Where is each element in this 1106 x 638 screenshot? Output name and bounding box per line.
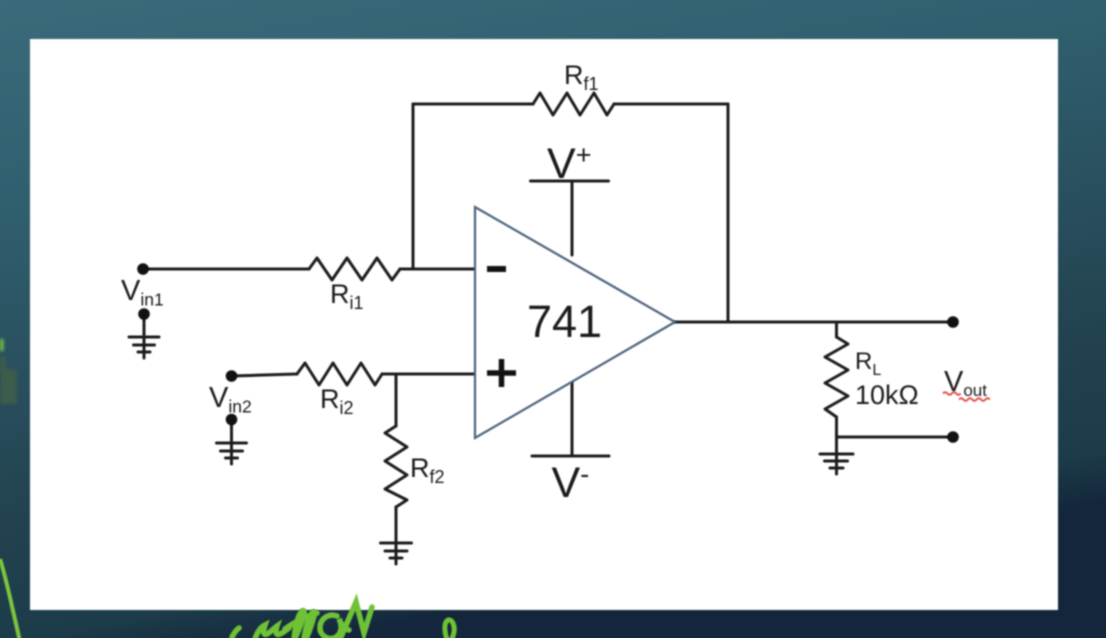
node Vin1 xyxy=(137,263,149,275)
resistor Rf1 xyxy=(533,93,614,115)
wire: V- stub xyxy=(571,382,574,456)
power rail V- bar xyxy=(532,455,609,458)
wire: RL top stub xyxy=(835,322,838,337)
wire: op-amp output xyxy=(675,321,953,324)
resistor Ri2 xyxy=(297,363,382,385)
node Vin2 ground dot xyxy=(226,414,238,426)
spellcheck squiggle under Vout xyxy=(943,392,990,401)
resistor RL xyxy=(825,337,848,417)
green annotation: small lime sliver on left edge xyxy=(0,339,4,351)
node Vout- xyxy=(947,431,959,443)
ground under Rf2 xyxy=(381,540,412,564)
wire: Vin2 node to Ri2 xyxy=(232,374,298,376)
wire: Ri1 to inverting input xyxy=(400,268,478,271)
wire: RL bottom stub xyxy=(835,417,838,437)
green annotation: left curved stroke xyxy=(0,559,20,638)
wire: Vin1 node to Ri1 xyxy=(143,268,309,271)
green annotation: handwritten 'tion' xyxy=(232,602,372,638)
wire: top feedback right segment xyxy=(614,103,728,106)
svg-text:741: 741 xyxy=(527,296,602,347)
wire: lower output return xyxy=(837,436,954,439)
ground under Vin1 xyxy=(129,337,159,352)
wire: Rf2 to ground xyxy=(395,507,398,540)
green annotation: small cursive loop near bottom xyxy=(445,620,454,638)
op-amp U1 (741) xyxy=(475,207,675,438)
wire: Ri2 to non-inverting input xyxy=(382,373,478,376)
node Vout+ xyxy=(947,316,959,328)
power rail V+ bar xyxy=(531,180,609,183)
resistor Rf2 xyxy=(385,426,407,507)
resistor Ri1 xyxy=(309,258,400,280)
wire: V+ stub xyxy=(571,181,574,255)
wire: node B riser to Rf2 xyxy=(395,374,398,426)
node Vin1 ground dot xyxy=(138,308,150,320)
wire: Vin1 ground stub xyxy=(143,317,146,358)
wire: top feedback left segment xyxy=(413,103,533,106)
wire: RL ground stub xyxy=(835,437,838,474)
green annotation: dark patch on left edge xyxy=(0,356,17,404)
ground under RL xyxy=(820,454,853,468)
wire: Vin2 ground stub xyxy=(230,422,233,464)
svg-text:10kΩ: 10kΩ xyxy=(855,380,919,410)
wire: feedback riser at node A xyxy=(412,104,415,269)
node Vin2 xyxy=(226,370,238,382)
ground under Vin2 xyxy=(217,443,247,458)
wire: feedback riser to output xyxy=(727,104,730,322)
